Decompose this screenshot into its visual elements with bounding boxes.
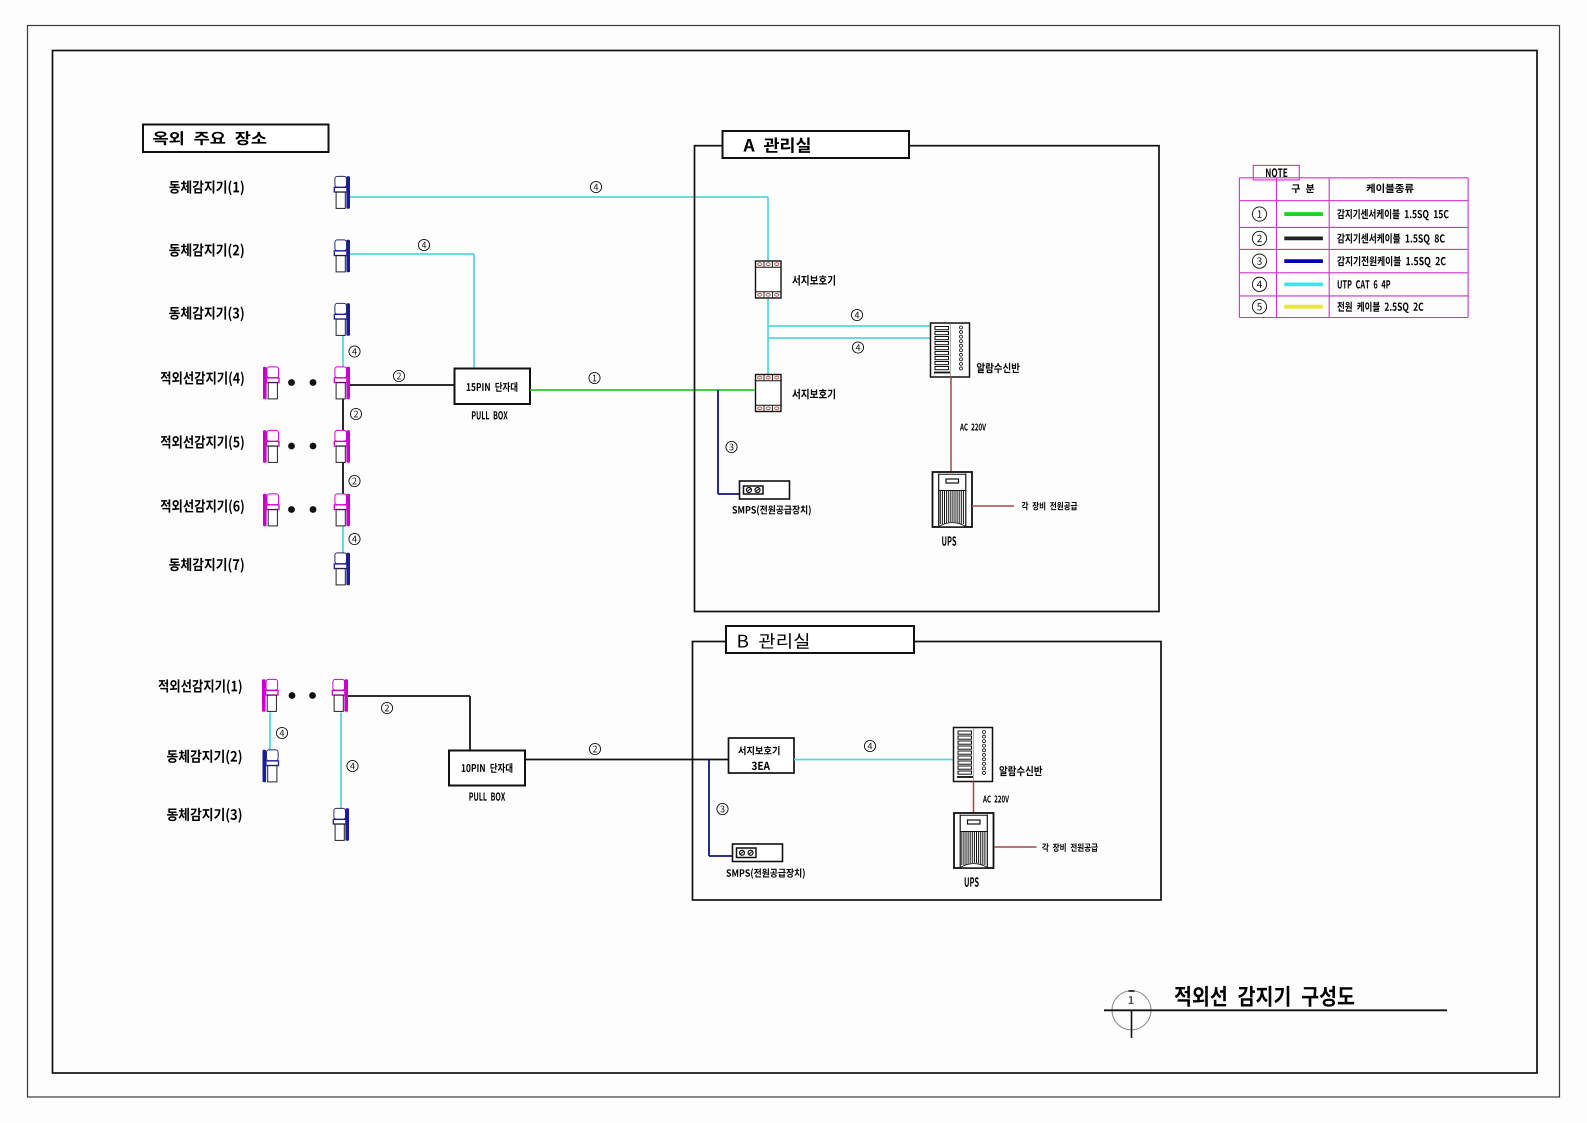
- label 동체감지기(1): [169, 180, 243, 195]
- wire (4) branch to alarm panel line 1: [768, 325, 931, 327]
- label 적외선감지기(5): [161, 435, 244, 450]
- label circle 3 navy wire A: [726, 441, 737, 452]
- IR detector pair 적외선감지기(1): [262, 679, 266, 712]
- wire (2) B det1 to 10PIN box: [346, 695, 470, 697]
- label 동체감지기(2): [169, 243, 243, 258]
- wire (4) B right det down to motion det3: [340, 713, 342, 809]
- wire (4) UTP from detector2 down to 15PIN terminal block: [348, 253, 474, 255]
- label 서지보호기 (1): [792, 275, 835, 286]
- wire UPS output A: [972, 505, 1014, 507]
- wire (1) green sensor cable from 15PIN to A-room surge protector 2: [530, 389, 755, 391]
- label 동체감지기(3): [169, 306, 243, 321]
- 15PIN terminal block box: [455, 369, 531, 405]
- wire (4) detector3 to detector4 vertical: [342, 334, 344, 368]
- wire (3) navy power cable to SMPS B: [708, 760, 710, 857]
- label circle 4 on det6-det7 wire: [349, 533, 360, 544]
- label circle 4 upper alarm wire: [851, 309, 862, 320]
- label PULL BOX: [472, 411, 508, 419]
- label circle 4 on det3-det4 wire: [349, 346, 360, 357]
- A room title box: A 관리실: [723, 131, 910, 158]
- label circle 4 on row2 wire: [418, 239, 429, 250]
- wire (4) branch to alarm panel line 2: [768, 337, 931, 339]
- label AC 220V B: [983, 796, 1009, 803]
- wire (2) detector4 to detector5 vertical: [342, 399, 344, 431]
- label AC 220V A: [960, 424, 986, 431]
- wire (2) detector4 to 15PIN terminal block: [348, 384, 455, 386]
- label circle 4 lower alarm wire: [852, 342, 863, 353]
- wire (4) cyan vertical through surge protector 1 down to branches: [767, 298, 769, 376]
- B room title box: B 관리실: [726, 626, 914, 653]
- drawing number circle: [1112, 991, 1151, 1030]
- IR detector pair 적외선감지기(4): [263, 367, 267, 400]
- legend row 3: [1252, 254, 1266, 268]
- title box: 옥외 주요 장소: [143, 125, 329, 153]
- wire (2) detector5 to detector6 vertical: [342, 462, 344, 494]
- UPS icon A: [933, 472, 973, 527]
- IR detector pair 적외선감지기(5): [263, 430, 267, 463]
- surge protector 1 서지보호기: [756, 261, 782, 298]
- wire (3) navy power cable to SMPS: [717, 390, 719, 494]
- wire UPS output B: [994, 846, 1037, 848]
- legend row 5: [1252, 300, 1266, 314]
- label 알람수신반 B: [999, 766, 1042, 776]
- SMPS box B: [733, 844, 783, 862]
- IR detector pair 적외선감지기(6): [263, 494, 267, 527]
- label circle 4 on row1 wire: [590, 181, 601, 192]
- label circle 2 B det1 wire: [381, 702, 392, 713]
- alarm receiver panel B 알람수신반: [954, 728, 993, 782]
- label circle 2 B wire: [589, 743, 600, 754]
- label 각 장비 전원공급 B: [1042, 843, 1098, 852]
- UPS icon B: [954, 813, 994, 868]
- table header 케이블종류: [1366, 184, 1413, 193]
- label 동체감지기(2) B: [167, 750, 241, 765]
- label circle 2 on det4-det5 wire: [350, 408, 361, 419]
- label 서지보호기 (2): [792, 389, 835, 400]
- label 적외선감지기(4): [161, 371, 244, 386]
- label 동체감지기(3) B: [167, 808, 241, 823]
- label 알람수신반 A: [977, 363, 1020, 373]
- label circle 3 navy wire B: [717, 803, 728, 814]
- label UPS A: [942, 536, 956, 546]
- motion detector 동체감지기(3): [346, 303, 350, 336]
- motion detector B 동체감지기(3): [345, 808, 349, 841]
- B room outline box: [693, 642, 1162, 901]
- main title: 적외선 감지기 구성도: [1175, 986, 1354, 1007]
- wire (4) detector6 to detector7 vertical: [342, 526, 344, 554]
- wire (2) 10PIN to B-room surge protector: [525, 759, 729, 761]
- label 동체감지기(7): [169, 558, 243, 573]
- legend row 4: [1252, 277, 1266, 291]
- motion detector 동체감지기(1): [346, 176, 350, 209]
- A room outline box: [695, 146, 1160, 612]
- legend row 2: [1252, 231, 1266, 245]
- label 적외선감지기(6): [161, 499, 244, 514]
- 10PIN terminal block box: [449, 751, 525, 786]
- wire (4) UTP from detector1 to A-room surge protector 1: [348, 196, 768, 198]
- label SMPS(전원공급장치) A: [732, 505, 810, 515]
- label circle 4 B left vertical: [276, 727, 287, 738]
- motion detector 동체감지기(7): [346, 553, 350, 586]
- SMPS box A: [740, 481, 790, 499]
- table header 구 분: [1292, 184, 1315, 193]
- wire (4) B surge to alarm panel: [794, 759, 954, 761]
- motion detector 동체감지기(2): [346, 240, 350, 273]
- legend row 1: [1252, 207, 1266, 221]
- label 각 장비 전원공급 A: [1022, 502, 1078, 511]
- NOTE label box: [1253, 165, 1299, 180]
- title underline: [1104, 1009, 1447, 1011]
- label circle 1 on green wire: [589, 372, 600, 383]
- label circle 4 B alarm wire: [864, 740, 875, 751]
- label circle 4 B right vertical: [347, 760, 358, 771]
- wire AC220V alarm to UPS B: [973, 782, 975, 814]
- label PULL BOX B: [469, 792, 505, 800]
- label circle 2 on det4 wire: [393, 370, 404, 381]
- label circle 2 on det5-det6 wire: [349, 475, 360, 486]
- label UPS B: [965, 877, 979, 887]
- alarm receiver panel A 알람수신반: [931, 323, 970, 377]
- label 적외선감지기(1): [158, 679, 241, 694]
- motion detector B 동체감지기(2): [263, 750, 267, 783]
- title vertical tick: [1131, 1010, 1133, 1038]
- wire AC220V alarm to UPS A: [950, 377, 952, 472]
- label SMPS(전원공급장치) B: [726, 868, 804, 878]
- surge protector box B: 서지보호기 3EA: [729, 738, 795, 773]
- NOTE table grid: [1239, 177, 1468, 179]
- surge protector 2 서지보호기: [756, 375, 782, 412]
- wire (4) B left det down to motion det2: [269, 713, 271, 750]
